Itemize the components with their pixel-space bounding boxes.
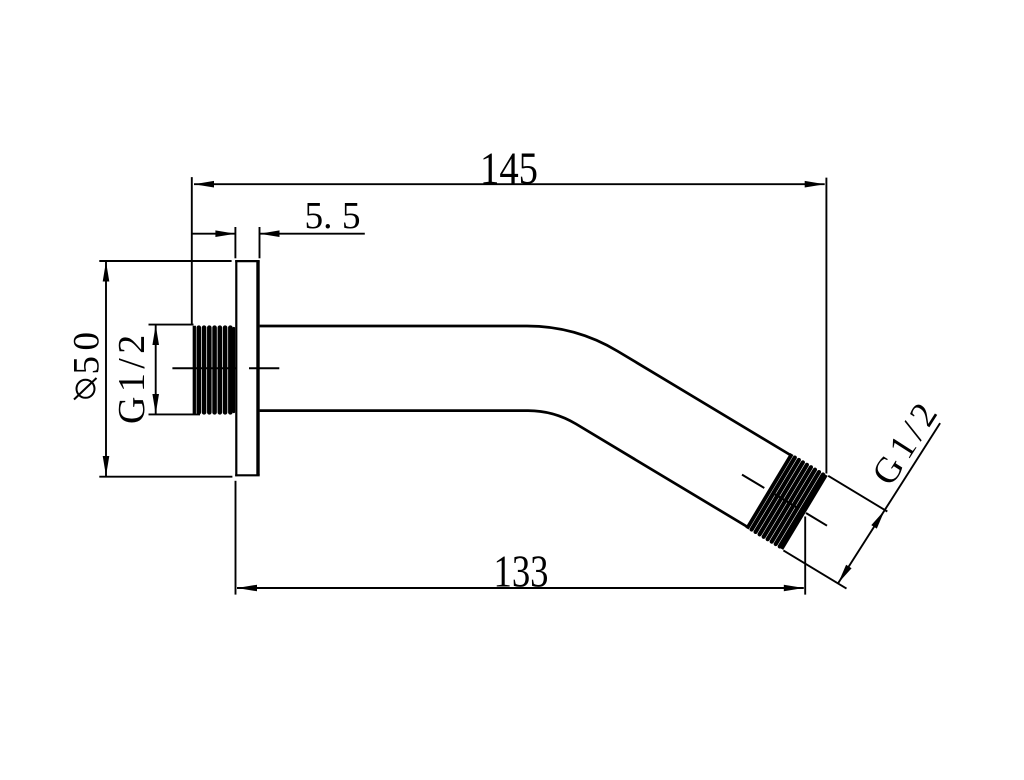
- svg-text:133: 133: [494, 547, 549, 597]
- dimension G1/2 left: arrowheads: [152, 325, 159, 414]
- dimension 5.5: arrowheads: [215, 230, 279, 237]
- svg-text:145: 145: [480, 144, 538, 194]
- svg-text:G1/2: G1/2: [111, 330, 153, 424]
- dimension G1/2 left: extension lines and dimension line: [149, 325, 201, 415]
- svg-text:50: 50: [67, 327, 108, 375]
- left thread G1/2 wall side: end face bar: [193, 326, 196, 415]
- dimension 133: arrowheads: [237, 585, 804, 592]
- dimension diameter-50: extension lines and dimension line: [99, 261, 232, 477]
- dimension G1/2 right: extension lines and dimension line: [783, 423, 940, 588]
- centre line of horizontal arm axis: [172, 367, 279, 369]
- shower arm tube: upper outline: [260, 326, 791, 455]
- dimension G1/2 right: arrowheads: [838, 510, 885, 583]
- left thread G1/2 wall side: crest stripes: [199, 328, 234, 413]
- shower arm tube: lower outline: [260, 411, 748, 527]
- right thread G1/2 outlet end, rotated 31 deg: [747, 454, 826, 549]
- dimension 5.5: extension lines and dimension line: [192, 227, 365, 258]
- dimension 133: extension lines and dimension line: [236, 481, 806, 595]
- wall flange plate, edge view: [235, 260, 260, 476]
- dimension 145: arrowheads: [194, 181, 825, 188]
- dimension diameter-50: arrowheads: [103, 262, 110, 477]
- centre line of angled outlet axis: [742, 475, 827, 526]
- dimension diameter-50: rotated label with diameter symbol: [67, 327, 108, 400]
- svg-text:5. 5: 5. 5: [305, 195, 361, 237]
- dimension 145: extension lines and dimension line: [192, 177, 827, 473]
